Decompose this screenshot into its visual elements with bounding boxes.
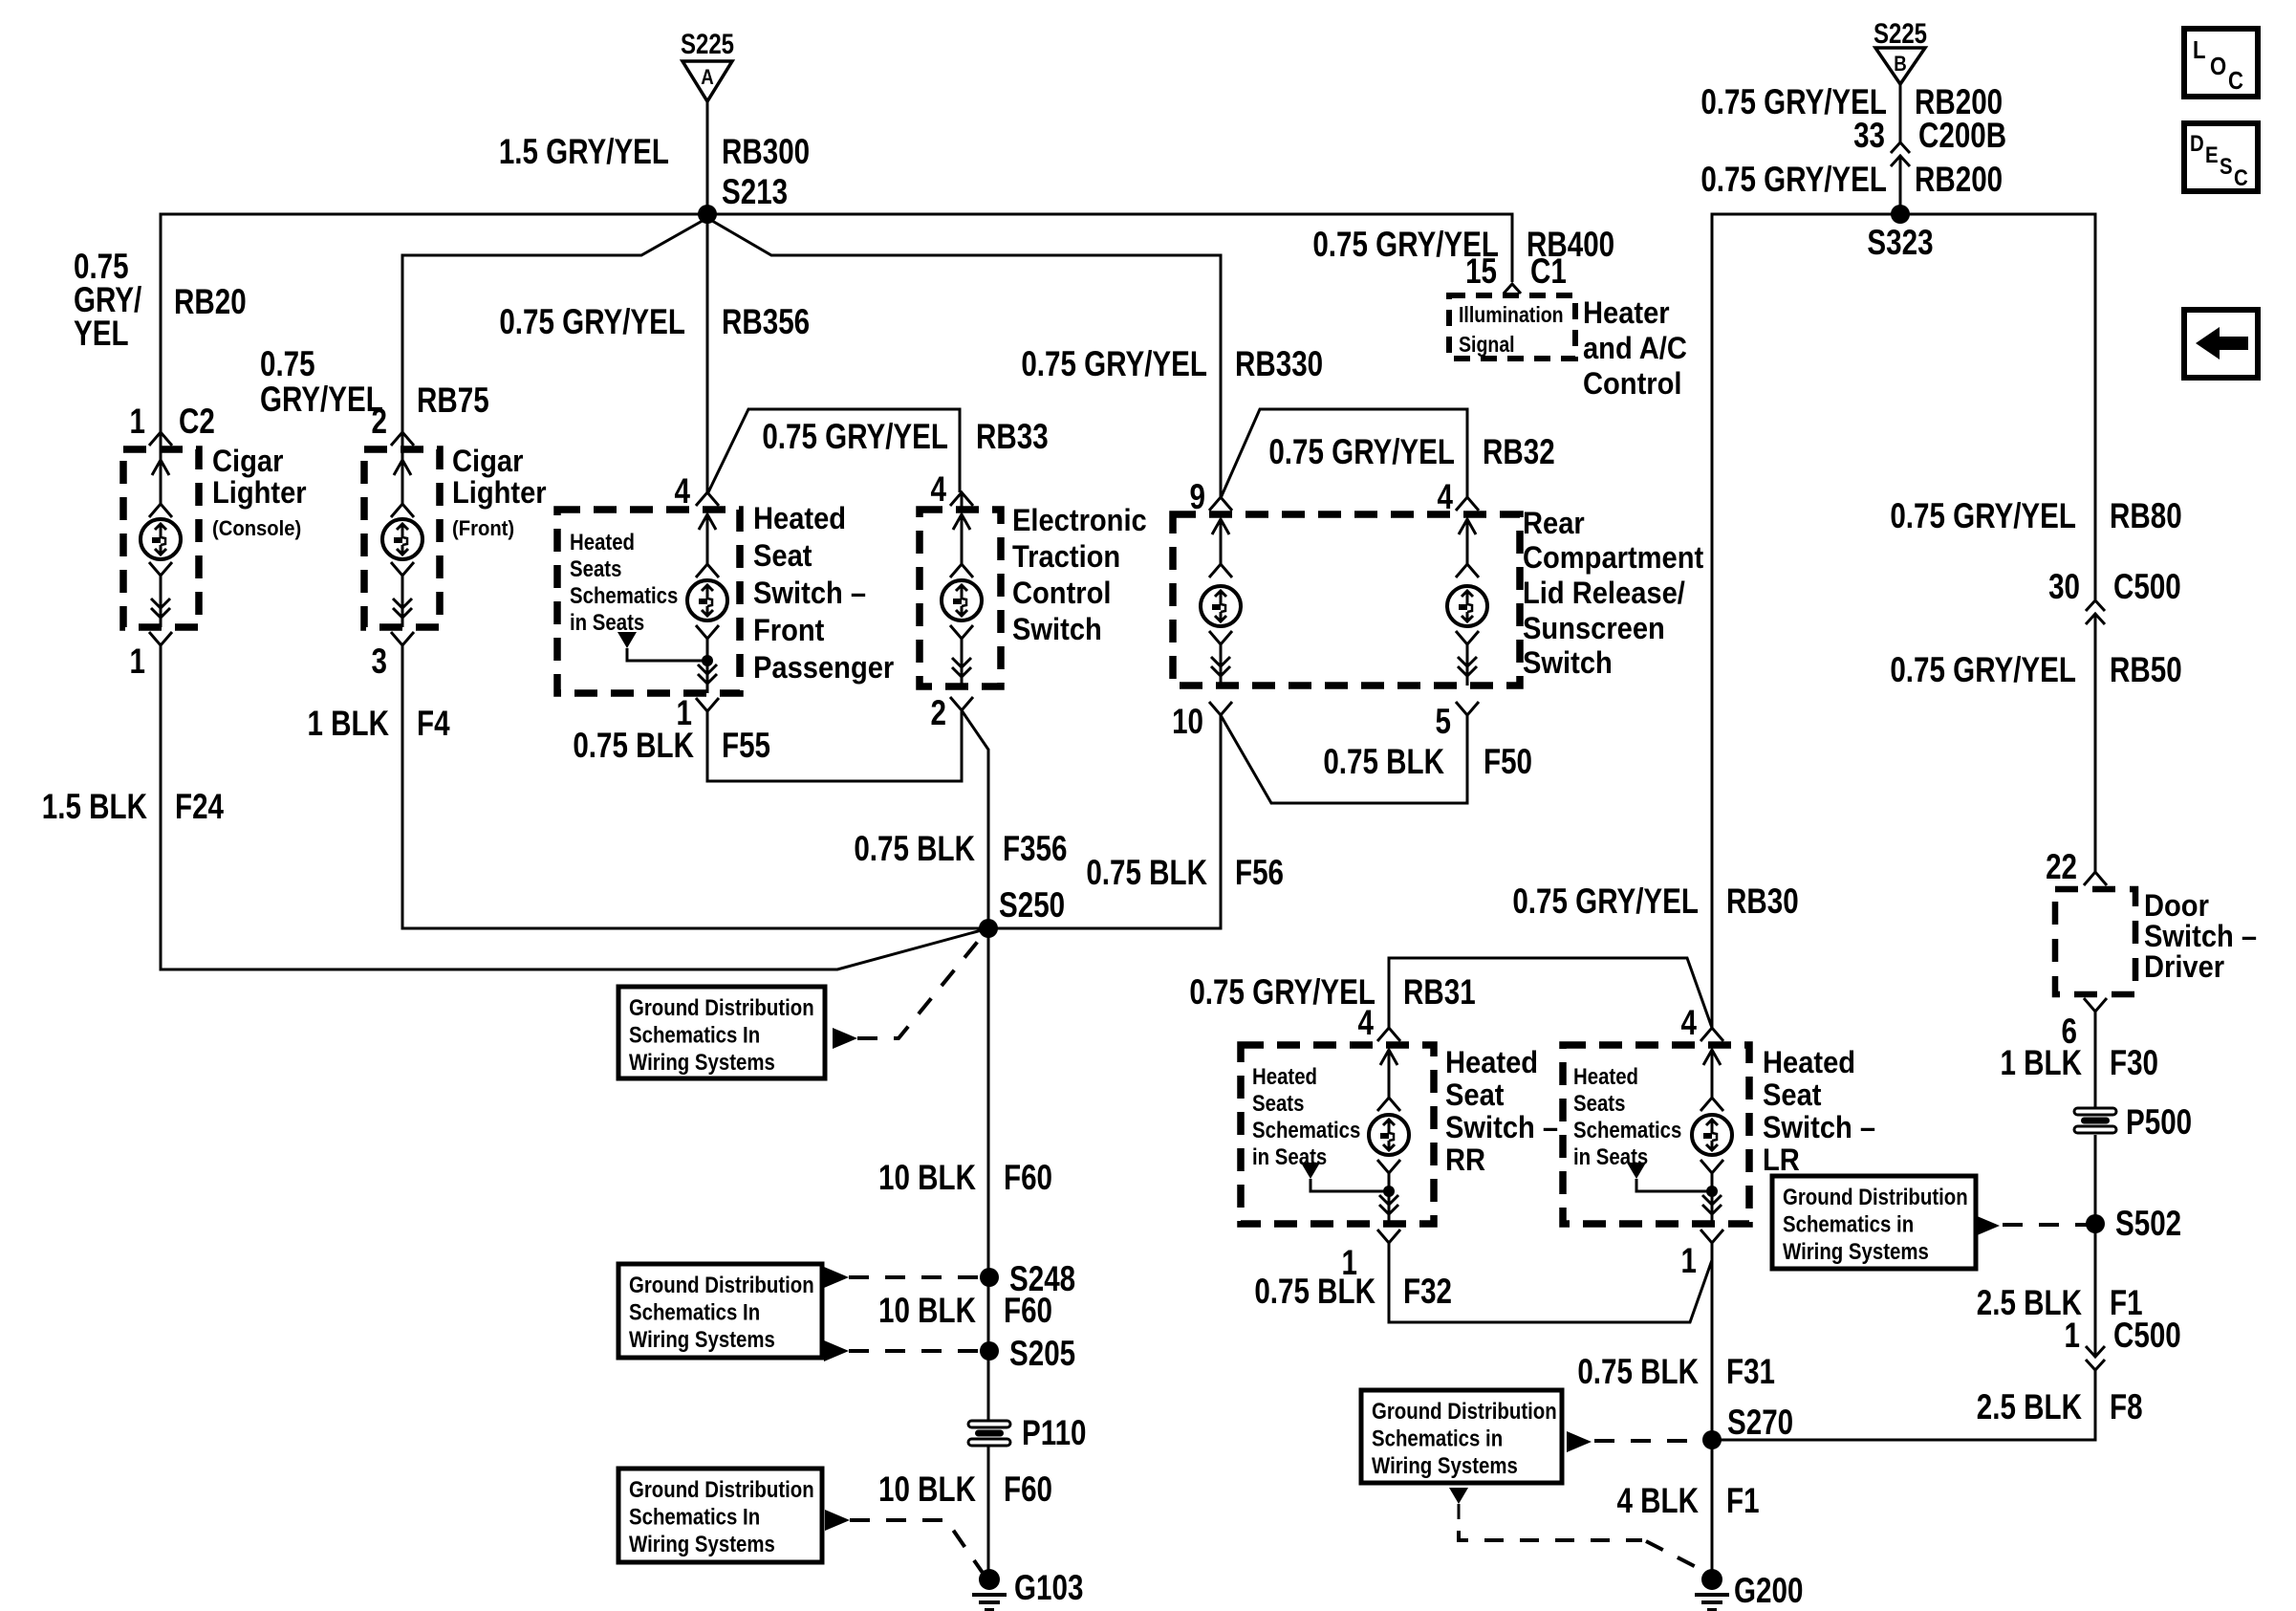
label pin 1 FP [677,694,692,733]
svg-text:G103: G103 [1014,1569,1083,1608]
ETC internal arrow [961,514,964,564]
wire F56 [988,715,1221,928]
svg-text:Schematics: Schematics [570,582,678,608]
label pin 9 [1190,478,1205,517]
pin 1 FP chevron [696,698,719,711]
label 4 BLK F1 [1616,1482,1699,1521]
svg-text:1 BLK: 1 BLK [2000,1044,2082,1083]
svg-text:A: A [701,67,714,90]
RR schematics pointer wire [1310,1179,1389,1191]
label pin 4 RR [1358,1004,1375,1043]
component ETC Switch box [920,510,1001,686]
svg-text:Lighter: Lighter [452,476,547,511]
svg-text:30: 30 [2048,568,2080,607]
pin 9 chevron [1209,497,1232,511]
svg-text:C500: C500 [2113,568,2181,607]
svg-text:(Console): (Console) [212,517,301,540]
connector C200B chevrons [1891,142,1910,153]
svg-text:in Seats: in Seats [570,609,644,635]
junction S248 [980,1268,999,1287]
cigar front chevron above element [391,504,414,517]
label Heater and A/C Control [1583,296,1670,331]
label 0.75 GRY/YEL RB356 [499,303,685,342]
pin 22 chevron [2084,872,2107,885]
svg-text:Ground Distribution: Ground Distribution [1783,1184,1968,1209]
connector C1 chevron [1504,284,1521,294]
svg-text:P110: P110 [1022,1414,1086,1453]
svg-text:10 BLK: 10 BLK [878,1292,976,1331]
svg-text:10 BLK: 10 BLK [878,1159,976,1198]
component Cigar Lighter (Front) box [364,449,440,627]
svg-text:S323: S323 [1867,224,1933,263]
label 0.75 GRY/YEL RB50 [1890,651,2076,690]
svg-text:RB33: RB33 [976,418,1049,457]
connector P500 grommet [2074,1108,2116,1115]
wire RB32 jumper [1221,409,1467,498]
connector C500 pin1 chevrons [2086,1346,2105,1357]
svg-text:0.75 GRY/YEL: 0.75 GRY/YEL [1890,651,2076,690]
svg-text:F1: F1 [1726,1482,1760,1521]
note Ground Distribution box 3 [618,1469,822,1562]
node S225 ref A triangle [682,61,732,101]
svg-text:F50: F50 [1484,743,1532,782]
pin 10 chevron [1209,702,1232,715]
svg-text:RB32: RB32 [1483,433,1555,472]
ref dashed link box5 to S502 [1975,1215,2000,1236]
svg-text:Heated: Heated [1252,1063,1317,1089]
svg-text:RB30: RB30 [1726,882,1799,922]
wire RB50 [2094,614,2097,872]
pin C2 chevron [149,432,172,446]
wire RB300 vertical [706,101,709,214]
svg-text:F8: F8 [2110,1388,2143,1427]
label RB20 [174,283,247,322]
wire F50 jumper [1221,715,1467,803]
label 0.75 GRY/YEL RB30 [1512,882,1699,922]
label pin 6 [2062,1012,2077,1052]
svg-text:GRY/YEL: GRY/YEL [260,381,383,420]
wire RB356 vertical [706,214,709,492]
svg-text:C1: C1 [1530,252,1567,292]
label 0.75 GRY/YEL RB400 [1312,226,1499,265]
ref dashed link box1 to S250 [833,1028,857,1049]
svg-text:F32: F32 [1403,1273,1452,1312]
svg-text:Passenger: Passenger [753,651,894,686]
label S213 [722,173,788,212]
label 0.75 GRY/YEL RB200 (upper) [1700,83,1887,122]
svg-text:Seats: Seats [1573,1090,1625,1116]
label 0.75 BLK F50 [1323,743,1444,782]
label 0.75 BLK F32 [1254,1273,1375,1312]
wire F60 upper [987,928,990,1277]
junction S270 [1702,1430,1722,1449]
legend DESC box [2184,123,2258,191]
connector C500 pin30 chevrons [2086,600,2105,611]
RR chevron below element [1377,1160,1400,1173]
svg-text:Heated: Heated [570,529,635,555]
wire F1 4BLK [1711,1440,1714,1579]
element FP switch heater [687,580,727,620]
svg-text:RB80: RB80 [2110,497,2182,536]
label pin 4 FP [675,472,691,512]
label 0.75 BLK F356 [854,830,975,869]
svg-text:Wiring Systems: Wiring Systems [629,1531,775,1557]
label 1.5 GRY/YEL RB300 [499,133,669,172]
svg-text:22: 22 [2046,848,2077,887]
element cigar front heater [382,519,422,559]
component Heated Seats Schematics box RR [1241,1045,1434,1224]
svg-text:F60: F60 [1004,1159,1052,1198]
note Ground Distribution box 4 [1361,1390,1562,1483]
svg-text:RB330: RB330 [1235,345,1323,384]
svg-text:RB356: RB356 [722,303,810,342]
ground G103 [979,1569,1000,1590]
node S225 ref B label [1874,16,1927,49]
label pin 2 ETC [931,694,946,733]
wire F60 to P110 [987,1351,990,1421]
label 1.5 BLK F24 [42,788,147,827]
wire F356 [962,710,988,928]
pin 1 / conn C2 label [130,403,145,442]
cigar console chevron above element [149,504,172,517]
connector P110 grommet [968,1421,1010,1427]
ref dashed link box2 to S248 [824,1267,849,1288]
label S323 [1867,224,1933,263]
svg-text:Seats: Seats [1252,1090,1304,1116]
ground G200 [1701,1569,1722,1590]
wire RB400 horizontal [707,214,1512,282]
svg-text:RB20: RB20 [174,283,247,322]
svg-text:0.75 GRY/YEL: 0.75 GRY/YEL [499,303,685,342]
wire RB330 branch [707,218,1221,497]
label pin 4 LR [1681,1004,1698,1043]
svg-text:15: 15 [1465,252,1497,292]
svg-text:0.75 GRY/YEL: 0.75 GRY/YEL [1021,345,1207,384]
svg-text:C200B: C200B [1918,117,2006,156]
RR chevron above element [1377,1098,1400,1111]
label 2.5 BLK F8 [1977,1388,2082,1427]
svg-text:Heated: Heated [1763,1046,1855,1080]
wire into cigar lighter console [160,432,162,460]
svg-text:S225: S225 [681,27,734,59]
pin 2 label [372,403,387,442]
svg-text:Wiring Systems: Wiring Systems [1783,1238,1929,1264]
pin 3 bottom chevron [391,632,414,645]
svg-text:S225: S225 [1874,16,1927,49]
label 0.75 GRY/YEL RB31 [1189,973,1375,1012]
label Heated Seat Switch RR [1445,1046,1538,1080]
svg-text:0.75 BLK: 0.75 BLK [573,727,694,766]
svg-text:Signal: Signal [1459,333,1515,358]
ref dashed link box4 to G200 [1458,1504,1461,1519]
node S225 ref B triangle [1875,48,1925,84]
svg-text:F56: F56 [1235,854,1284,893]
wire F1 2.5BLK [2094,1135,2097,1357]
component Door Switch Driver box [2055,889,2135,994]
label pin 22 [2046,848,2077,887]
ETC chevron below element [950,625,973,639]
wire RB20 top horizontal [161,214,707,432]
svg-text:S: S [2220,153,2233,179]
LR internal junction [1706,1186,1718,1197]
svg-text:(Front): (Front) [452,517,514,540]
label 0.75 BLK F56 [1086,854,1207,893]
svg-text:0.75 BLK: 0.75 BLK [1086,854,1207,893]
FP schematics pointer triangle [617,632,637,648]
svg-text:Switch –: Switch – [753,577,866,611]
svg-text:F60: F60 [1004,1292,1052,1331]
FP chevron above element [696,564,719,577]
component Illumination Signal box [1449,295,1575,359]
rear right lower wire [1466,644,1469,686]
svg-text:B: B [1894,54,1907,76]
element RR switch heater [1369,1115,1409,1155]
legend LOC box [2184,29,2258,97]
svg-text:Sunscreen: Sunscreen [1523,612,1665,646]
rear left lower wire [1220,644,1223,686]
svg-text:0.75 GRY/YEL: 0.75 GRY/YEL [1189,973,1375,1012]
svg-text:0.75 BLK: 0.75 BLK [1254,1273,1375,1312]
svg-text:Switch –: Switch – [1445,1111,1558,1145]
LR chevron below element [1700,1160,1723,1173]
ref dashed link box2 to S205 [824,1340,849,1361]
label 0.75 GRY/YEL (RB20) [74,248,129,287]
svg-text:E: E [2205,142,2219,167]
svg-text:0.75 BLK: 0.75 BLK [854,830,975,869]
label pin 15 / conn C1 [1465,252,1497,292]
svg-text:S205: S205 [1009,1335,1075,1374]
pin 4 rear chevron [1456,497,1479,511]
svg-text:0.75 GRY/YEL: 0.75 GRY/YEL [1700,161,1887,200]
svg-text:10 BLK: 10 BLK [878,1470,976,1510]
svg-text:2.5 BLK: 2.5 BLK [1977,1388,2082,1427]
svg-text:RR: RR [1445,1143,1485,1178]
svg-text:F24: F24 [175,788,224,827]
svg-text:Schematics In: Schematics In [629,1022,760,1048]
svg-text:Lighter: Lighter [212,476,307,511]
pin 2 chevron [391,432,414,446]
wire RB33 jumper [707,409,960,494]
svg-text:Switch: Switch [1523,646,1613,681]
wire RB31 [1389,958,1712,1028]
component Cigar Lighter (Console) box [123,449,199,627]
label pin 4 rear [1438,478,1454,517]
label Rear Compartment Lid Release Sunscreen Switch [1523,507,1585,541]
wire F30 [2094,1012,2097,1108]
note Ground Distribution box 5 [1772,1176,1976,1269]
svg-text:5: 5 [1436,703,1451,742]
svg-text:Door: Door [2144,889,2209,924]
svg-text:1 BLK: 1 BLK [307,705,389,744]
label 0.75 BLK F31 [1577,1353,1699,1392]
svg-text:Ground Distribution: Ground Distribution [629,1272,814,1297]
svg-text:4 BLK: 4 BLK [1616,1482,1699,1521]
RR internal arrow [1388,1050,1391,1098]
FP lower wire [706,639,709,693]
cigar front internal arrow [401,460,404,504]
svg-text:Wiring Systems: Wiring Systems [629,1326,775,1352]
note Ground Distribution box 2 [618,1264,822,1358]
wire F60 middle [987,1277,990,1351]
svg-text:3: 3 [372,642,387,682]
svg-text:4: 4 [1681,1004,1698,1043]
label 0.75 GRY/YEL RB80 [1890,497,2076,536]
svg-text:F55: F55 [722,727,770,766]
label pin 1 bottom cigar console [130,642,145,682]
svg-text:F30: F30 [2110,1044,2158,1083]
cigar console chevron below element [149,562,172,576]
svg-text:and A/C: and A/C [1583,332,1687,366]
label Illumination Signal [1459,303,1564,328]
svg-text:0.75 BLK: 0.75 BLK [1577,1353,1699,1392]
label pin 3 [372,642,387,682]
svg-text:S250: S250 [999,886,1065,925]
svg-text:4: 4 [1358,1004,1375,1043]
svg-text:1.5 GRY/YEL: 1.5 GRY/YEL [499,133,669,172]
svg-text:1.5 BLK: 1.5 BLK [42,788,147,827]
svg-text:Schematics in: Schematics in [1372,1426,1503,1451]
label Heated Seats Schematics in Seats FP [570,529,635,555]
svg-text:2: 2 [372,403,387,442]
LR internal arrow [1711,1050,1714,1098]
LR schematics pointer triangle [1627,1163,1646,1179]
cigar console internal arrow [160,460,162,504]
pin 1 RR chevron [1377,1230,1400,1243]
svg-text:F31: F31 [1726,1353,1775,1392]
rear right internal arrow [1466,519,1469,564]
label 0.75 GRY/YEL (RB75) [260,345,315,384]
svg-text:Schematics in: Schematics in [1783,1211,1914,1237]
FP schematics pointer wire [627,648,707,661]
label 2.5 BLK F1 [1977,1284,2082,1323]
svg-text:Schematics: Schematics [1573,1117,1681,1143]
wire F31 [1711,1243,1714,1440]
svg-text:Seat: Seat [1445,1078,1504,1113]
pin 4 LR chevron [1700,1028,1723,1041]
ref dashed link box3 to G103 [825,1510,850,1531]
pin 1 LR chevron [1700,1230,1723,1243]
svg-text:C500: C500 [2113,1317,2181,1356]
FP chevron below element [696,625,719,639]
svg-text:0.75 GRY/YEL: 0.75 GRY/YEL [1268,433,1455,472]
svg-text:0.75 GRY/YEL: 0.75 GRY/YEL [1512,882,1699,922]
svg-text:Heated: Heated [753,502,846,536]
svg-text:Traction: Traction [1012,540,1120,575]
junction S205 [980,1341,999,1361]
label Electronic Traction Control Switch [1012,504,1147,538]
label Heated Seats Schematics in Seats RR [1252,1063,1317,1089]
element LR switch heater [1692,1115,1732,1155]
svg-text:0.75 GRY/YEL: 0.75 GRY/YEL [1890,497,2076,536]
svg-text:Seat: Seat [1763,1078,1821,1113]
rear left chevron above element [1209,564,1232,577]
svg-text:Schematics: Schematics [1252,1117,1360,1143]
svg-text:Seats: Seats [570,555,621,581]
label pin 33 / conn C200B [1853,117,1885,156]
svg-text:L: L [2193,36,2205,64]
label Heated Seats Schematics in Seats LR [1573,1063,1638,1089]
element rear left [1201,586,1241,626]
svg-text:D: D [2190,130,2204,156]
svg-text:Cigar: Cigar [452,445,523,479]
svg-text:Lid Release/: Lid Release/ [1523,577,1685,611]
svg-text:Cigar: Cigar [212,445,283,479]
RR schematics pointer triangle [1301,1163,1320,1179]
svg-text:Ground Distribution: Ground Distribution [629,1476,814,1502]
svg-text:RB300: RB300 [722,133,810,172]
wire RB75 branch [402,218,707,432]
component Heated Seats Schematics box LR [1563,1045,1749,1224]
label RB75 [417,381,489,421]
label pin 10 [1172,703,1203,742]
rear left chevron below element [1209,631,1232,644]
ETC lower wire [961,639,964,686]
wire into cigar lighter front [401,432,404,460]
svg-text:Wiring Systems: Wiring Systems [1372,1452,1518,1478]
svg-text:0.75 GRY/YEL: 0.75 GRY/YEL [762,418,948,457]
pin 5 chevron [1456,702,1479,715]
svg-text:G200: G200 [1734,1572,1803,1611]
element cigar console heater [141,519,181,559]
svg-text:Ground Distribution: Ground Distribution [1372,1398,1557,1424]
label pin 1 / conn C500 lower [2065,1317,2080,1356]
wire F60 lower [987,1446,990,1579]
svg-text:4: 4 [675,472,691,512]
svg-text:Schematics In: Schematics In [629,1504,760,1530]
wire F8 [1712,1370,2095,1440]
pin 4 RR chevron [1377,1028,1400,1041]
label Door Switch - Driver [2144,889,2209,924]
svg-text:P500: P500 [2126,1103,2192,1143]
label 0.75 GRY/YEL RB330 [1021,345,1207,384]
label 1 BLK F4 [307,705,389,744]
label 0.75 GRY/YEL RB32 [1268,433,1455,472]
svg-text:1: 1 [2065,1317,2080,1356]
svg-text:Driver: Driver [2144,950,2224,985]
label 0.75 GRY/YEL RB200 (lower) [1700,161,1887,200]
wire F32 [1389,1243,1712,1322]
label pin 30 / conn C500 [2048,568,2080,607]
svg-text:Rear: Rear [1523,507,1585,541]
svg-text:C: C [2228,67,2243,95]
svg-text:RB50: RB50 [2110,651,2182,690]
svg-text:Switch: Switch [1012,613,1102,647]
rear right chevron below element [1456,631,1479,644]
svg-text:F356: F356 [1003,830,1067,869]
LR schematics pointer wire [1636,1179,1712,1191]
RR lower wire [1388,1173,1391,1224]
label 10 BLK F60 (1) [878,1159,976,1198]
svg-text:4: 4 [931,470,947,510]
svg-text:Heated: Heated [1445,1046,1538,1080]
label 1 BLK F30 [2000,1044,2082,1083]
label Cigar Lighter (Front) [452,445,523,479]
svg-text:Illumination: Illumination [1459,303,1564,328]
svg-text:Front: Front [753,614,824,648]
svg-text:Electronic: Electronic [1012,504,1147,538]
svg-text:S213: S213 [722,173,788,212]
label 0.75 BLK F55 [573,727,694,766]
ref dashed link box4 to S270 [1567,1431,1592,1452]
svg-text:Wiring Systems: Wiring Systems [629,1049,775,1075]
svg-text:Heater: Heater [1583,296,1670,331]
svg-text:S502: S502 [2115,1205,2181,1244]
svg-text:Seat: Seat [753,539,812,574]
label Heated Seat Switch LR [1763,1046,1855,1080]
svg-text:F60: F60 [1004,1470,1052,1510]
label pin 1 LR [1681,1242,1697,1281]
svg-text:O: O [2210,53,2226,80]
